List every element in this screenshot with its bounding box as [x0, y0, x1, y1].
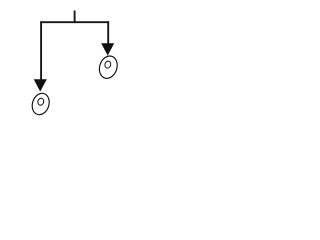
node right inner ellipse: [104, 60, 112, 69]
wire: center stub going up: [74, 11, 76, 24]
node left outer ellipse: [30, 91, 52, 117]
arrowhead left: [34, 79, 47, 91]
wire: right vertical drop: [107, 21, 109, 45]
wire: top horizontal segment: [40, 21, 109, 23]
wire: left vertical drop: [40, 21, 42, 81]
node left inner ellipse: [37, 97, 45, 106]
arrowhead right: [101, 43, 114, 55]
node right outer ellipse: [97, 54, 120, 81]
